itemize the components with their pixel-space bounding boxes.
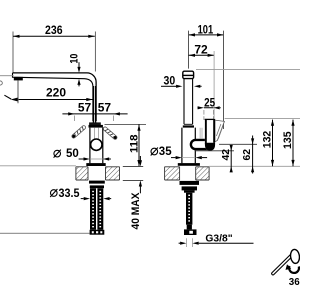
svg-text:57: 57 xyxy=(78,101,92,115)
icon knob xyxy=(290,249,300,264)
dimension 236 line with arrows xyxy=(13,35,95,38)
svg-text:G3/8": G3/8" xyxy=(205,234,232,245)
dimension 42 xyxy=(195,145,234,173)
spout stub top edge xyxy=(205,118,215,120)
dimension 62 xyxy=(219,136,257,174)
svg-text:57: 57 xyxy=(98,101,112,115)
dimension 220 xyxy=(4,81,92,104)
svg-text:135: 135 xyxy=(282,131,294,149)
left lever arm (alternate position, hatched) xyxy=(71,125,86,139)
body cylinder right view xyxy=(182,128,195,164)
svg-text:10: 10 xyxy=(69,54,81,64)
svg-text:30: 30 xyxy=(164,74,176,88)
handle shaft xyxy=(184,79,193,124)
svg-text:35: 35 xyxy=(159,146,172,158)
locknut below counter xyxy=(89,181,105,189)
svg-text:101: 101 xyxy=(198,22,214,36)
diameter symbol for D50 xyxy=(54,150,61,158)
ball joint circle xyxy=(91,139,102,150)
bottom mounting nut xyxy=(90,230,105,235)
countertop surface line (left) xyxy=(0,165,76,167)
aerator leader line (cut at left edge) xyxy=(0,76,14,85)
handle cap (top) xyxy=(183,71,194,78)
G3/8 hex fitting xyxy=(184,229,197,235)
threaded shank xyxy=(90,188,103,230)
shank step xyxy=(187,225,192,230)
dimension 118 xyxy=(105,124,147,166)
svg-text:118: 118 xyxy=(128,135,140,154)
dimension D33.5 xyxy=(81,197,112,200)
svg-text:220: 220 xyxy=(46,85,66,99)
base flange right view xyxy=(178,163,200,166)
dimension 236 extension lines xyxy=(13,32,95,73)
svg-text:42: 42 xyxy=(221,149,232,161)
spout joint lines xyxy=(200,128,202,139)
svg-text:25: 25 xyxy=(204,95,215,109)
spout elbow capsule (side) xyxy=(191,140,208,149)
countertop hatched blocks right view xyxy=(165,167,180,180)
svg-text:236: 236 xyxy=(45,23,63,37)
base flange xyxy=(86,163,105,166)
diameter symbol for D35 xyxy=(151,148,158,156)
aerator xyxy=(14,77,23,81)
riser pipe xyxy=(93,86,95,123)
right lever arm (alternate position, hatched) xyxy=(103,126,118,140)
diameter symbol for D33.5 xyxy=(50,189,57,197)
countertop hatched section right block xyxy=(106,167,120,180)
svg-text:360°: 360° xyxy=(289,277,300,288)
svg-text:40 MAX: 40 MAX xyxy=(130,192,142,230)
dimension 72 xyxy=(189,51,215,118)
dimension 135 xyxy=(291,120,294,167)
spout outlet tube (end view) xyxy=(205,119,215,150)
countertop surface extension to right edge xyxy=(209,165,300,167)
dimension 101 xyxy=(189,31,224,129)
spout underside extension line xyxy=(225,118,300,120)
svg-text:33.5: 33.5 xyxy=(59,188,81,200)
dimension D35 xyxy=(171,156,207,159)
dimension 30 xyxy=(161,85,202,88)
icon lever bar xyxy=(271,253,294,276)
dimension 10 (spout tube) xyxy=(77,62,80,86)
spout break section (hatched) xyxy=(215,120,224,142)
max depth reference line xyxy=(0,232,90,234)
icon rotation arc xyxy=(289,266,299,273)
spout outline xyxy=(13,73,97,121)
dimension 132 xyxy=(271,120,274,167)
threaded shank right view xyxy=(186,193,192,225)
dimension G3/8 xyxy=(179,242,254,245)
dimension 40 MAX xyxy=(123,156,143,193)
dimension 25 xyxy=(198,106,221,120)
svg-text:50: 50 xyxy=(66,148,79,160)
icon arc arrowhead xyxy=(286,264,292,270)
dimension 57 / 57 xyxy=(62,112,127,121)
collar and body top plate xyxy=(89,122,103,127)
svg-text:72: 72 xyxy=(194,43,208,57)
collar bar xyxy=(183,125,194,127)
handle top extension line xyxy=(196,69,300,71)
locknut right view xyxy=(180,181,200,193)
G3/8 extension dashes xyxy=(186,238,192,247)
dimension D50 xyxy=(79,157,111,160)
svg-text:62: 62 xyxy=(242,149,253,161)
svg-text:132: 132 xyxy=(262,131,274,149)
body cylinder xyxy=(90,128,103,164)
countertop hatched section left block xyxy=(76,167,88,180)
